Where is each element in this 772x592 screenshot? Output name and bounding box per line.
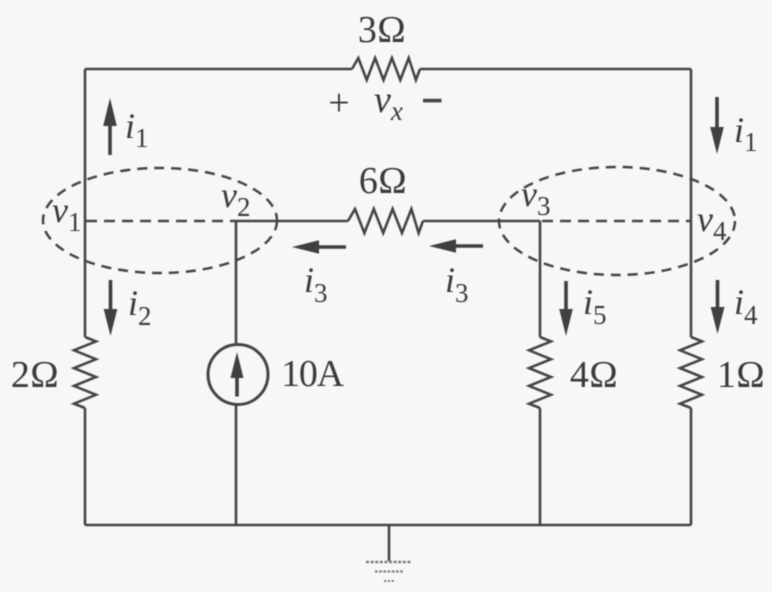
svg-text:+: + [328,82,349,124]
ground symbol bars [366,562,412,581]
arrow i5 shaft [564,281,568,312]
wire bottom rail [85,524,691,527]
arrow i4 shaft [716,280,720,310]
arrow i1 left head [103,98,117,126]
label vx minus sign [423,99,442,103]
wire middle solid v2 to 6ohm [236,220,348,223]
svg-text:6Ω: 6Ω [359,160,407,202]
resistor 4ohm zigzag [529,337,551,408]
arrow i4 head [711,307,725,334]
supernode ellipse v3-v4 [499,167,735,275]
arrow i2 head [104,309,118,336]
wire branch v2 upper [235,221,238,345]
wire branch v3 upper [539,221,542,337]
wire middle dashed v1-v2 [86,220,236,223]
wire top rail left segment [85,68,352,71]
current source 10A circle [208,345,268,405]
arrow i5 head [559,309,573,336]
resistor 3ohm zigzag [352,58,420,80]
arrow i1 left shaft [108,124,112,155]
wire right vertical lower [690,408,693,525]
ground stub wire [388,525,391,561]
arrow i3 right shaft [455,244,483,248]
resistor 2ohm zigzag [74,337,96,408]
wire right vertical upper [690,69,693,337]
wire left vertical upper [84,69,87,337]
svg-text:1Ω: 1Ω [717,354,765,396]
svg-text:2Ω: 2Ω [11,354,59,396]
current source 10A arrow head [231,352,244,378]
resistor 1ohm zigzag [680,337,702,408]
arrow i3 left head [292,240,319,254]
wire left vertical lower [84,408,87,525]
arrow i3 left shaft [318,245,346,249]
wire top rail right segment [420,68,691,71]
arrow i1 right head [710,127,724,154]
svg-text:10A: 10A [281,353,345,395]
arrow i1 right shaft [715,97,719,130]
supernode ellipse v1-v2 [43,168,277,273]
arrow i3 right head [429,239,456,253]
arrow i2 shaft [109,280,113,312]
svg-text:4Ω: 4Ω [570,354,618,396]
current source 10A arrow shaft [235,377,239,397]
wire middle solid 6ohm to v3 [423,220,540,223]
wire branch v3 lower [539,408,542,525]
wire branch v2 lower [235,404,238,525]
wire middle dashed v3-v4 [542,220,691,223]
svg-text:3Ω: 3Ω [358,9,406,51]
resistor 6ohm zigzag [348,209,423,233]
